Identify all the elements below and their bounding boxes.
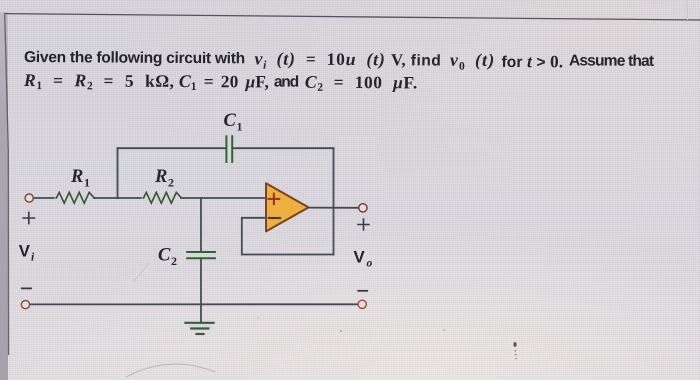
output terminal top (359, 204, 367, 212)
op-amp U1 (266, 183, 309, 231)
label Vi (19, 242, 35, 264)
wire input to R1 (34, 197, 57, 199)
wire R2 to op-amp plus input (181, 197, 266, 199)
top feedback wire left of C1 (118, 147, 227, 149)
capacitor C2 (187, 252, 215, 258)
minus sign input (22, 287, 31, 289)
capacitor C1 (226, 136, 232, 162)
resistor R1 (57, 192, 95, 203)
plus sign output (358, 219, 369, 230)
resistor R2 (144, 192, 182, 203)
bottom rail wire (30, 303, 357, 305)
left dark margin strip (0, 12, 8, 380)
input terminal bottom (21, 301, 29, 309)
plus sign input (23, 212, 34, 223)
node B to C2 wire (200, 198, 202, 252)
label C1 (224, 111, 243, 133)
label C2 (158, 246, 177, 269)
input terminal top (25, 194, 33, 202)
label Vo (354, 247, 373, 269)
node A riser wire (117, 148, 119, 198)
op-amp output wire (309, 207, 358, 209)
C2 to bottom wire (200, 259, 202, 323)
negative feedback loop wire (242, 218, 334, 255)
top feedback wire right of C1 (233, 147, 334, 149)
ground (185, 323, 213, 334)
wire R1 to node A (94, 197, 144, 199)
minus sign output (358, 290, 367, 292)
label R1 (70, 167, 90, 190)
right feedback drop wire (333, 148, 335, 254)
label R2 (154, 167, 174, 190)
output terminal bottom (358, 300, 366, 308)
frame border left line (5, 14, 9, 355)
